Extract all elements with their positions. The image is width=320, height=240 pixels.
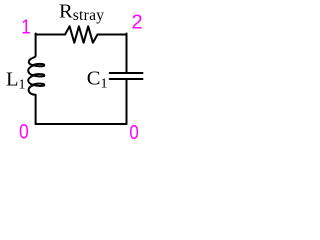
svg-text:2: 2 bbox=[131, 11, 142, 33]
wire bottom horizontal bbox=[36, 123, 127, 125]
svg-text:0: 0 bbox=[129, 121, 138, 144]
svg-text:1: 1 bbox=[21, 15, 30, 38]
resistor Rstray zigzag bbox=[65, 26, 98, 42]
svg-text:L1: L1 bbox=[6, 68, 26, 92]
svg-text:C1: C1 bbox=[87, 68, 108, 92]
wire left vertical + inductor L1 coil bbox=[28, 34, 44, 125]
wire right vertical upper (node 2 to capacitor) bbox=[126, 34, 128, 73]
wire right vertical lower (capacitor to node 0) bbox=[126, 79, 128, 124]
svg-text:Rstray: Rstray bbox=[59, 1, 104, 25]
wire top-left horizontal segment bbox=[36, 34, 66, 36]
capacitor C1 top plate bbox=[110, 72, 143, 74]
svg-text:0: 0 bbox=[19, 120, 29, 144]
wire top-right horizontal segment bbox=[98, 34, 127, 36]
capacitor C1 bottom plate bbox=[110, 78, 143, 80]
